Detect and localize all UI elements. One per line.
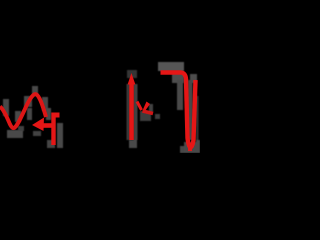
waveform squiggle [0, 94, 46, 128]
left arrowhead [32, 118, 44, 132]
spike bottom blob [188, 146, 192, 151]
small vertical bar [51, 113, 55, 146]
red ink strokes [0, 73, 196, 152]
ghost blocks around check glyph [140, 104, 160, 121]
ghost blocks around waveform [3, 86, 63, 148]
ink dot [56, 113, 60, 118]
check glyph blob [143, 102, 151, 112]
ghost blocks around up-arrow [127, 70, 138, 148]
up arrow shaft [129, 80, 134, 140]
check glyph [137, 102, 142, 111]
ghost blocks around spike [158, 62, 200, 153]
spike stroke [161, 73, 196, 148]
up arrowhead [128, 73, 136, 85]
check glyph dash [143, 111, 154, 114]
left arrow shaft [40, 123, 55, 128]
